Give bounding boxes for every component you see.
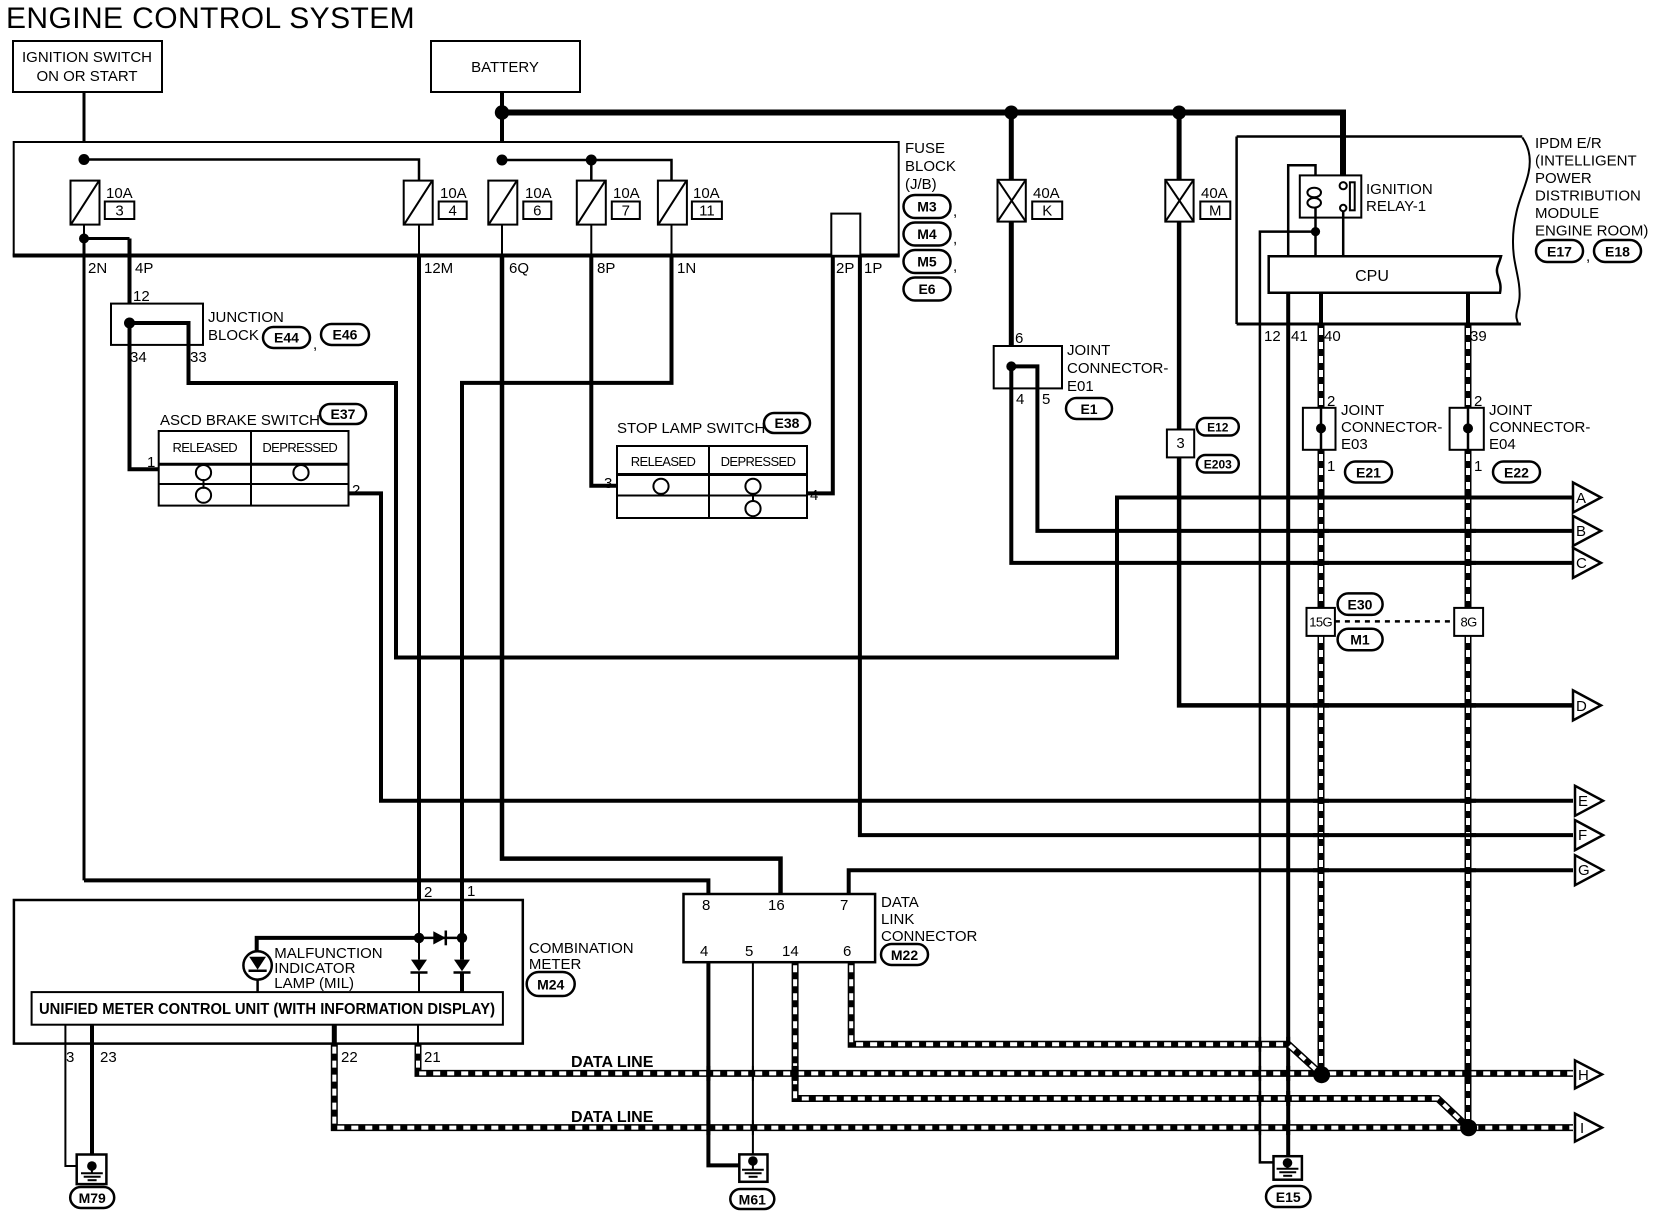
svg-text:7: 7 [840, 897, 848, 914]
svg-text:M22: M22 [891, 947, 918, 963]
MIL lamp [243, 951, 271, 992]
svg-text:LAMP (MIL): LAMP (MIL) [274, 975, 354, 992]
wire MIL feed [257, 938, 419, 952]
svg-text:RELAY-1: RELAY-1 [1366, 198, 1426, 215]
ignition relay-1 [1300, 175, 1433, 217]
svg-text:E17: E17 [1547, 244, 1572, 260]
svg-text:IGNITION SWITCH: IGNITION SWITCH [22, 49, 152, 66]
node diode right [457, 933, 467, 943]
svg-text:23: 23 [100, 1049, 117, 1066]
svg-text:41: 41 [1291, 328, 1308, 345]
svg-text:E30: E30 [1348, 597, 1373, 613]
wire 1P to arrow F [860, 256, 1573, 835]
connector oval M61 [730, 1189, 774, 1209]
svg-text:6: 6 [843, 943, 851, 960]
svg-text:DATA LINE: DATA LINE [571, 1109, 654, 1126]
node feed to fuse K [1004, 106, 1018, 120]
svg-text:DATA: DATA [881, 894, 919, 911]
connector 3 box E12 [1167, 430, 1194, 458]
svg-text:LINK: LINK [881, 911, 914, 928]
wire meter pin22 stub [332, 1025, 337, 1044]
node junction block [124, 318, 135, 329]
svg-text:H: H [1578, 1067, 1589, 1084]
svg-text:10A: 10A [613, 185, 640, 202]
switch table E38 [604, 446, 818, 518]
fuse 10A 11 [658, 181, 722, 225]
svg-text:CONNECTOR-: CONNECTOR- [1489, 419, 1590, 436]
wire DLC pin7 to arrow G [849, 870, 1573, 894]
wire fuse K to joint connector E01 [1009, 222, 1014, 367]
wire 1N to meter pin1 [462, 256, 672, 901]
label IPDM text [1535, 135, 1648, 240]
svg-text:M61: M61 [739, 1192, 766, 1208]
connector oval M79 [70, 1187, 114, 1208]
connector 2P/1P box [831, 214, 860, 256]
svg-text:,: , [953, 203, 957, 220]
svg-text:2: 2 [352, 482, 360, 499]
svg-text:1P: 1P [864, 260, 882, 277]
wire fuse11 bottom [671, 225, 673, 256]
svg-text:CPU: CPU [1355, 268, 1389, 285]
connector oval E37 [320, 404, 366, 424]
node diode left [414, 933, 424, 943]
svg-text:E03: E03 [1341, 436, 1368, 453]
wire 12M down to meter pin2 [417, 256, 421, 901]
svg-text:DATA LINE: DATA LINE [571, 1054, 654, 1071]
battery box [431, 41, 580, 92]
label COMBINATION METER [529, 940, 634, 973]
connector oval M5 [904, 250, 958, 275]
svg-text:8: 8 [702, 897, 710, 914]
label MIL [274, 945, 382, 992]
wire DLC pin6 checkered to H node [851, 962, 1321, 1074]
ground M61 [739, 1154, 767, 1181]
IPDM E/R box [1237, 137, 1530, 325]
svg-text:3: 3 [1176, 435, 1184, 452]
svg-text:2: 2 [1474, 393, 1482, 410]
connector oval E30 [1338, 593, 1383, 615]
svg-text:JUNCTION: JUNCTION [208, 309, 284, 326]
svg-text:4: 4 [700, 943, 708, 960]
svg-text:B: B [1576, 523, 1586, 540]
arrow E [1575, 786, 1603, 816]
wire 4P branch [84, 237, 130, 240]
node at fuse3 top [79, 154, 90, 165]
svg-text:3: 3 [604, 475, 612, 492]
wire junction 34 to ASCD pin1 [130, 323, 160, 469]
connector oval E21 [1345, 462, 1392, 483]
svg-text:2: 2 [1327, 393, 1335, 410]
wire DLC pin5 to ground M61 [752, 962, 754, 1160]
wire fuse3 to fuse4 bus [84, 160, 419, 182]
svg-text:4: 4 [1016, 391, 1024, 408]
connector 15G box [1307, 608, 1335, 636]
fuse 10A 6 [488, 181, 551, 225]
svg-text:E46: E46 [333, 327, 358, 343]
svg-text:M4: M4 [917, 226, 937, 242]
svg-text:UNIFIED METER CONTROL UNIT (WI: UNIFIED METER CONTROL UNIT (WITH INFORMA… [39, 1001, 495, 1018]
wire 8P to stop lamp pin3 [591, 256, 617, 486]
connector oval E15 [1266, 1186, 1311, 1207]
connector oval E17 [1536, 240, 1590, 265]
fuse 10A 7 [577, 181, 640, 225]
wire relay contact to CPU [1342, 211, 1345, 256]
wire relay coil top loop [1288, 165, 1315, 256]
svg-text:3: 3 [66, 1049, 74, 1066]
ground E15 [1274, 1156, 1302, 1180]
svg-text:1: 1 [1327, 458, 1335, 475]
node bus at fuse6 [497, 155, 508, 166]
joint connector E01 [994, 330, 1169, 408]
svg-text:ASCD BRAKE SWITCH: ASCD BRAKE SWITCH [160, 412, 320, 429]
arrow I [1575, 1114, 1602, 1142]
switch table E37 [147, 431, 360, 506]
ignition switch box [13, 41, 162, 92]
connector oval E18 [1594, 240, 1641, 262]
connector oval E44 [263, 327, 317, 353]
svg-text:12: 12 [1264, 328, 1281, 345]
svg-text:10A: 10A [106, 185, 133, 202]
svg-text:1: 1 [1474, 458, 1482, 475]
junction block [111, 288, 284, 366]
wire fuse6 to fuse11 bus [502, 160, 672, 181]
svg-text:12M: 12M [424, 260, 453, 277]
svg-text:ENGINE CONTROL SYSTEM: ENGINE CONTROL SYSTEM [6, 2, 415, 35]
connector oval E12 [1197, 418, 1239, 436]
wire crossing patches [708, 498, 1476, 1136]
svg-text:STOP LAMP SWITCH: STOP LAMP SWITCH [617, 420, 765, 437]
node I junction [1460, 1119, 1477, 1136]
svg-text:M5: M5 [917, 254, 937, 270]
CPU box [1269, 256, 1501, 293]
svg-text:16: 16 [768, 897, 785, 914]
combination meter box [14, 900, 523, 1044]
unified meter control unit box [32, 992, 503, 1025]
diode series right-pointing [433, 931, 446, 946]
arrow G [1575, 855, 1603, 885]
connector oval M22 [881, 944, 928, 965]
wire battery drop [500, 92, 504, 181]
wire DLC pin14 checkered to I node [795, 962, 1469, 1128]
svg-text:I: I [1580, 1120, 1584, 1137]
wire 6Q to DLC pin16 [502, 256, 781, 895]
wire E01 pin5 to arrow B [1011, 366, 1573, 531]
fuse block J/B outline [13, 142, 900, 256]
svg-text:34: 34 [130, 349, 147, 366]
wire feed down to 40A fuse M [1177, 113, 1182, 181]
wire ignition switch to fuse 3 [83, 92, 86, 181]
svg-text:ON OR START: ON OR START [36, 68, 137, 85]
svg-text:6: 6 [533, 203, 541, 220]
svg-text:JOINT: JOINT [1067, 342, 1110, 359]
svg-text:6: 6 [1015, 330, 1023, 347]
wire pin22 checkered to arrow I [334, 1044, 1573, 1128]
svg-text:11: 11 [699, 203, 715, 220]
wire fuse7 bottom [590, 225, 592, 256]
connector oval M4 [904, 223, 958, 248]
wire DLC pin4 to ground M61 [708, 962, 740, 1165]
svg-text:A: A [1576, 490, 1586, 507]
wire 2N down [83, 239, 86, 881]
svg-text:E1: E1 [1080, 401, 1097, 417]
svg-text:7: 7 [622, 203, 630, 220]
svg-text:15G: 15G [1309, 615, 1332, 630]
svg-text:CONNECTOR-: CONNECTOR- [1341, 419, 1442, 436]
svg-text:CONNECTOR-: CONNECTOR- [1067, 360, 1168, 377]
arrow A [1573, 483, 1601, 513]
svg-text:E01: E01 [1067, 378, 1094, 395]
wire coil to pin 12 [1260, 232, 1316, 1163]
svg-text:(INTELLIGENT: (INTELLIGENT [1535, 153, 1637, 170]
svg-text:10A: 10A [440, 185, 467, 202]
wire main battery feed [502, 113, 1343, 185]
wire fuse M down through connector 3 to arrow D [1179, 222, 1573, 706]
svg-text:12: 12 [133, 288, 150, 305]
svg-text:JOINT: JOINT [1341, 402, 1384, 419]
ground M79 [77, 1155, 107, 1185]
svg-text:40A: 40A [1033, 185, 1060, 202]
node below fuse3 [79, 234, 89, 244]
svg-text:E21: E21 [1356, 465, 1381, 481]
fuse 40A M [1165, 180, 1230, 222]
wire fuse4 bottom [418, 225, 420, 256]
svg-text:M1: M1 [1350, 632, 1370, 648]
wire 4P down to junction block [128, 239, 132, 324]
svg-text:RELEASED: RELEASED [631, 454, 696, 469]
svg-text:6Q: 6Q [509, 260, 529, 277]
connector oval E22 [1493, 462, 1540, 483]
svg-text:IGNITION: IGNITION [1366, 181, 1433, 198]
svg-text:E38: E38 [775, 415, 800, 431]
svg-text:BLOCK: BLOCK [905, 158, 956, 175]
svg-text:40A: 40A [1201, 185, 1228, 202]
connector oval E1 [1066, 398, 1112, 419]
svg-text:BLOCK: BLOCK [208, 327, 259, 344]
svg-text:C: C [1576, 555, 1587, 572]
wire meter pin3 to ground [65, 1025, 92, 1166]
svg-text:G: G [1578, 862, 1590, 879]
fuse 10A 4 [404, 181, 467, 225]
diode down at pin1 [454, 960, 471, 993]
connector oval M3 [904, 195, 958, 220]
connector oval E46 [321, 324, 369, 345]
wire pin 39 checkered down to I node [1465, 325, 1472, 1128]
svg-text:1N: 1N [677, 260, 696, 277]
svg-text:DISTRIBUTION: DISTRIBUTION [1535, 188, 1641, 205]
svg-text:FUSE: FUSE [905, 140, 945, 157]
svg-text:CONNECTOR: CONNECTOR [881, 928, 978, 945]
svg-text:E44: E44 [274, 330, 299, 346]
wire 2N to DLC pin 8 [84, 880, 708, 894]
svg-text:DEPRESSED: DEPRESSED [262, 440, 337, 455]
svg-text:DEPRESSED: DEPRESSED [721, 454, 796, 469]
svg-text:10A: 10A [693, 185, 720, 202]
node coil bottom [1311, 227, 1320, 236]
wire pin 39 solid stub [1466, 293, 1470, 325]
wire pin21 checkered to arrow H [418, 1044, 1573, 1074]
connector oval E6 [904, 278, 951, 301]
wire meter pin2 inside [418, 900, 420, 960]
arrow F [1575, 820, 1603, 850]
svg-text:1: 1 [147, 454, 155, 471]
wire meter pin1 inside [460, 900, 464, 960]
svg-text:8G: 8G [1461, 615, 1478, 630]
svg-text:,: , [1586, 248, 1590, 265]
svg-text:21: 21 [424, 1049, 441, 1066]
svg-text:D: D [1576, 698, 1587, 715]
svg-text:RELEASED: RELEASED [173, 440, 238, 455]
svg-text:COMBINATION: COMBINATION [529, 940, 634, 957]
svg-text:1: 1 [467, 883, 475, 900]
connector oval E203 [1197, 455, 1239, 473]
svg-text:E18: E18 [1605, 244, 1630, 260]
svg-text:M: M [1209, 203, 1222, 220]
svg-text:E37: E37 [331, 406, 356, 422]
svg-text:14: 14 [782, 943, 799, 960]
svg-text:,: , [313, 336, 317, 353]
node H junction [1313, 1066, 1330, 1083]
svg-text:,: , [953, 258, 957, 275]
wire fuse3 bottom [83, 225, 85, 239]
svg-text:4: 4 [810, 487, 818, 504]
svg-text:33: 33 [190, 349, 207, 366]
joint connector E03 [1303, 393, 1442, 475]
svg-text:2N: 2N [88, 260, 107, 277]
node E01 [1006, 361, 1016, 371]
svg-text:E6: E6 [918, 281, 935, 297]
svg-text:JOINT: JOINT [1489, 402, 1532, 419]
arrow C [1573, 548, 1601, 578]
fuse 10A 3 [71, 181, 135, 225]
svg-text:5: 5 [1042, 391, 1050, 408]
label FUSE BLOCK (J/B) [905, 140, 956, 193]
node feed to fuse M [1172, 106, 1186, 120]
svg-text:4: 4 [449, 203, 457, 220]
arrow H [1575, 1060, 1602, 1088]
arrow D [1573, 690, 1601, 720]
svg-text:M24: M24 [537, 977, 564, 993]
svg-text:M3: M3 [917, 199, 937, 215]
svg-text:F: F [1578, 827, 1587, 844]
svg-text:BATTERY: BATTERY [471, 59, 539, 76]
connector oval M1 [1338, 629, 1383, 651]
svg-text:K: K [1042, 203, 1052, 220]
wire feed down to 40A fuse K [1009, 113, 1014, 181]
wire pin 41 to ground E15 [1286, 293, 1290, 1156]
svg-text:E12: E12 [1207, 421, 1229, 435]
wire E01 pin4 to arrow C [1011, 366, 1573, 563]
dashed link 15G-8G [1335, 620, 1454, 623]
fuse 40A K [998, 180, 1063, 222]
arrow B [1573, 516, 1601, 546]
wire bus drop to fuse 7 [590, 160, 593, 181]
node bus at fuse7 [586, 155, 597, 166]
wire relay coil bottom [1314, 208, 1317, 257]
data link connector M22 [684, 894, 978, 962]
svg-text:22: 22 [341, 1049, 358, 1066]
svg-text:METER: METER [529, 956, 582, 973]
wire ASCD pin2 to arrow E [349, 493, 1574, 800]
node battery feed at x502 [495, 105, 509, 119]
svg-text:8P: 8P [597, 260, 615, 277]
svg-text:2: 2 [424, 884, 432, 901]
joint connector E04 [1450, 393, 1591, 475]
svg-text:5: 5 [745, 943, 753, 960]
connector 8G box [1454, 608, 1483, 636]
svg-text:E203: E203 [1204, 458, 1232, 472]
wire fuse6 bottom [501, 225, 503, 256]
svg-text:POWER: POWER [1535, 170, 1592, 187]
svg-text:E04: E04 [1489, 436, 1516, 453]
svg-text:E: E [1578, 793, 1588, 810]
wire meter pin23 to ground [90, 1025, 94, 1162]
wire diode link [419, 937, 462, 940]
svg-text:ENGINE ROOM): ENGINE ROOM) [1535, 223, 1648, 240]
wire pin 40 checkered down to H node [1318, 325, 1325, 1075]
svg-text:E22: E22 [1504, 465, 1529, 481]
svg-text:IPDM E/R: IPDM E/R [1535, 135, 1602, 152]
wire pin 40 solid stub [1319, 293, 1323, 325]
svg-text:MODULE: MODULE [1535, 205, 1599, 222]
svg-text:(J/B): (J/B) [905, 176, 937, 193]
svg-text:,: , [953, 231, 957, 248]
wire stop lamp pin4 to 2P [807, 256, 833, 494]
svg-text:39: 39 [1470, 328, 1487, 345]
connector oval M24 [527, 972, 575, 996]
svg-text:2P: 2P [836, 260, 854, 277]
connector oval E38 [764, 413, 810, 433]
svg-text:40: 40 [1324, 328, 1341, 345]
wire junction 33 out [130, 323, 1574, 658]
svg-text:3: 3 [115, 203, 123, 220]
svg-text:E15: E15 [1276, 1189, 1301, 1205]
svg-text:M79: M79 [79, 1190, 106, 1206]
svg-text:4P: 4P [135, 260, 153, 277]
wire meter pin21 stub [417, 1025, 419, 1044]
svg-text:10A: 10A [525, 185, 552, 202]
diode down at pin2 [411, 960, 428, 993]
